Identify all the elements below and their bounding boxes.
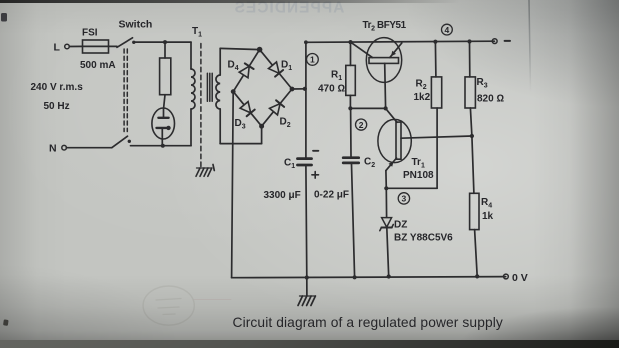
diode D3 <box>240 102 251 113</box>
chassis ground <box>306 278 308 296</box>
svg-text:L: L <box>54 42 61 54</box>
svg-text:2: 2 <box>359 120 364 130</box>
fuse FS1 <box>83 40 109 53</box>
svg-text:4: 4 <box>445 25 450 35</box>
svg-text:N: N <box>49 143 57 155</box>
bridge edge bottom-right <box>262 89 292 126</box>
svg-text:1: 1 <box>310 55 315 65</box>
svg-text:3: 3 <box>402 194 407 204</box>
svg-text:240 V r.m.s: 240 V r.m.s <box>31 82 84 93</box>
bridge node dots <box>257 47 263 53</box>
transformer T1 primary winding <box>190 42 192 69</box>
svg-text:Tr2 BFY51: Tr2 BFY51 <box>363 20 407 33</box>
output terminal - <box>492 39 497 44</box>
diode D2 <box>270 104 281 115</box>
resistor R1 <box>348 40 352 44</box>
svg-text:DZ: DZ <box>394 220 407 231</box>
svg-text:R3: R3 <box>477 77 488 90</box>
diode D1 <box>269 62 280 73</box>
svg-text:D1: D1 <box>281 60 292 73</box>
bridge edge left-top <box>233 50 259 92</box>
svg-text:BZ Y88C5V6: BZ Y88C5V6 <box>394 233 453 244</box>
svg-text:0 V: 0 V <box>512 272 528 284</box>
wire secondary bottom to bridge AC bottom <box>220 143 261 145</box>
junction Tr1 emitter / R2 / DZ <box>384 186 388 190</box>
switch S1b blade (neutral pole) <box>112 136 128 148</box>
faint stamp watermark <box>143 286 194 325</box>
bridge edge left-bottom <box>233 92 261 127</box>
resistor R4 <box>472 136 474 193</box>
zener diode DZ BZY88C5V6 <box>385 188 387 217</box>
wire bridge - output down to 0V rail <box>232 92 234 278</box>
switch contact dot <box>132 41 135 44</box>
svg-text:1k2: 1k2 <box>414 92 431 103</box>
junction dot lamp branch bottom <box>161 144 165 148</box>
resistor R2 <box>431 77 441 108</box>
svg-text:FSI: FSI <box>82 28 98 39</box>
svg-text:500 mA: 500 mA <box>80 60 116 71</box>
svg-text:Tr1: Tr1 <box>412 157 425 170</box>
svg-text:820 Ω: 820 Ω <box>477 94 504 105</box>
diode D4 <box>239 66 249 78</box>
transformer T1 secondary winding <box>219 48 221 75</box>
faint pink line <box>194 299 231 301</box>
capacitor C2 <box>350 108 352 156</box>
unregulated + vertical wire with C1 <box>305 42 307 157</box>
svg-text:Circuit diagram of a regulated: Circuit diagram of a regulated power sup… <box>233 315 503 330</box>
svg-text:PN108: PN108 <box>403 170 434 181</box>
stray page mark left bottom <box>3 319 9 326</box>
svg-text:D3: D3 <box>235 118 246 131</box>
wire bridge + output to C1 rail <box>292 88 306 90</box>
wire switch to primary bottom <box>131 145 192 147</box>
0V terminal <box>504 274 509 279</box>
wire L to fuse <box>69 45 82 47</box>
svg-text:D4: D4 <box>228 60 239 73</box>
capacitor C1 <box>298 157 312 160</box>
svg-text:0-22 μF: 0-22 μF <box>314 190 349 201</box>
top rail node1 to output <box>306 41 495 42</box>
stray page mark left top <box>1 13 7 22</box>
svg-text:Switch: Switch <box>119 19 153 31</box>
svg-text:R1: R1 <box>331 70 342 83</box>
node junction R1/Tr2 base/Tr1 collector <box>348 106 352 110</box>
node 3 <box>398 193 409 204</box>
node 2 <box>356 119 367 130</box>
svg-text:D2: D2 <box>280 117 291 130</box>
wire fuse to switch pivot <box>109 45 118 47</box>
screen earth ground <box>196 165 214 177</box>
transistor Tr1 PN108 <box>378 119 411 162</box>
indicator series resistor <box>164 42 166 58</box>
svg-text:T1: T1 <box>192 26 202 39</box>
svg-text:C1: C1 <box>284 158 295 171</box>
switch mechanical link (dashed) <box>123 49 125 132</box>
transformer core <box>206 73 208 101</box>
svg-text:3300 μF: 3300 μF <box>264 190 301 201</box>
svg-text:R4: R4 <box>481 197 492 210</box>
resistor R3 <box>465 77 475 108</box>
node 1 <box>307 54 319 66</box>
transformer screen (dashed) <box>200 44 202 168</box>
neon indicator lamp <box>152 108 175 139</box>
0V bottom rail <box>232 277 506 278</box>
switch contact dot <box>128 140 131 143</box>
bridge edge top-right <box>260 50 292 89</box>
svg-text:C2: C2 <box>364 157 375 170</box>
svg-text:470 Ω: 470 Ω <box>318 84 345 95</box>
wire N to switch <box>66 147 111 149</box>
svg-text:R2: R2 <box>416 79 427 92</box>
svg-text:1k: 1k <box>482 211 494 222</box>
wire to R2 bottom <box>386 187 437 189</box>
svg-text:50 Hz: 50 Hz <box>44 101 70 112</box>
node 4 <box>442 24 453 35</box>
switch S1a blade (live pole) <box>117 38 133 48</box>
wire resistor to neon lamp <box>164 95 165 109</box>
wire secondary top to bridge AC top <box>220 48 259 49</box>
wire switch to lamp branch and transformer primary top <box>135 41 192 43</box>
junction dot lamp branch top <box>163 40 167 44</box>
